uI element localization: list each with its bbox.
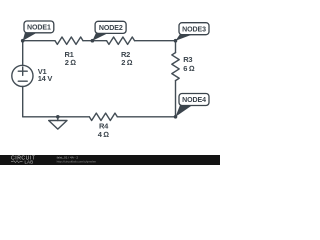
junction dot node D <box>174 115 178 119</box>
node label NODE4 <box>179 94 209 106</box>
junction dot node A <box>21 39 25 43</box>
wire left vertical lower <box>22 87 24 117</box>
svg-text:NODE2: NODE2 <box>99 25 123 32</box>
callout tail NODE1 <box>23 32 37 41</box>
svg-text:NODE3: NODE3 <box>182 26 206 33</box>
svg-text:6 Ω: 6 Ω <box>183 64 195 73</box>
ground stem <box>57 117 59 121</box>
svg-text:4 Ω: 4 Ω <box>98 130 110 139</box>
svg-text:2 Ω: 2 Ω <box>65 58 77 67</box>
node label NODE2 <box>95 21 126 33</box>
wire R1 to node B / R2 <box>83 40 107 42</box>
wire right vertical lower <box>175 81 177 117</box>
wire R2 to top-right corner <box>135 40 176 42</box>
svg-text:NODE4: NODE4 <box>182 97 206 104</box>
svg-text:R3: R3 <box>183 55 192 64</box>
resistor R2 <box>107 37 135 44</box>
V1 minus sign <box>18 80 27 82</box>
svg-text:14 V: 14 V <box>38 74 53 83</box>
wire top-left corner to R1 <box>23 40 55 42</box>
svg-text:NODE1: NODE1 <box>27 25 51 32</box>
callout tail NODE2 <box>92 32 108 40</box>
junction dot node C <box>174 39 178 43</box>
callout tail NODE4 <box>176 105 193 117</box>
voltage source V1 circle <box>12 65 33 86</box>
junction dot node B <box>91 39 95 43</box>
wire right vertical upper <box>175 41 177 53</box>
wire left vertical upper <box>22 41 24 66</box>
watermark logo squiggle <box>11 161 23 163</box>
svg-text:http://circuitlab.com/c/qvwlen: http://circuitlab.com/c/qvwlen <box>57 159 97 163</box>
ground triangle <box>49 121 67 130</box>
V1 plus sign <box>18 70 27 72</box>
resistor R4 <box>89 113 117 120</box>
resistor R1 <box>55 37 83 44</box>
wire bottom left segment <box>23 116 90 118</box>
watermark bar <box>0 155 220 165</box>
svg-text:LAB: LAB <box>25 159 34 164</box>
callout tail NODE3 <box>176 34 193 41</box>
svg-text:2 Ω: 2 Ω <box>121 58 133 67</box>
junction dot ground <box>56 115 60 119</box>
node label NODE3 <box>179 23 209 35</box>
resistor R3 <box>172 53 179 81</box>
node label NODE1 <box>24 21 54 33</box>
wire bottom right segment <box>117 116 175 118</box>
